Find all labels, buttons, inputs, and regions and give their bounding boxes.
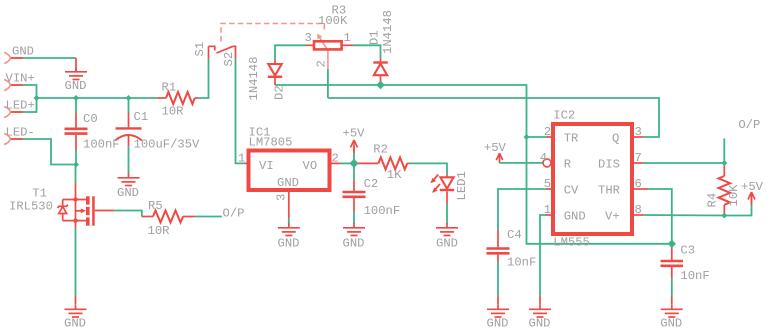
svg-text:Q: Q — [612, 132, 619, 146]
svg-text:T1: T1 — [32, 187, 47, 201]
svg-text:R2: R2 — [373, 143, 388, 157]
svg-text:C1: C1 — [134, 110, 149, 124]
svg-text:V+: V+ — [605, 210, 620, 224]
svg-text:7: 7 — [635, 151, 642, 165]
svg-text:1: 1 — [238, 152, 245, 166]
svg-text:10nF: 10nF — [680, 269, 709, 283]
svg-text:5: 5 — [544, 177, 551, 191]
svg-text:O/P: O/P — [738, 118, 760, 132]
svg-text:LED1: LED1 — [455, 171, 469, 200]
svg-text:R1: R1 — [162, 81, 177, 95]
svg-text:GND: GND — [12, 45, 34, 59]
svg-text:100nF: 100nF — [364, 204, 401, 218]
svg-text:2: 2 — [544, 125, 551, 139]
svg-text:GND: GND — [343, 237, 365, 251]
svg-text:C3: C3 — [680, 243, 695, 257]
svg-text:GND: GND — [277, 176, 299, 190]
svg-text:10R: 10R — [148, 224, 170, 238]
svg-text:IRL530: IRL530 — [9, 200, 53, 214]
svg-text:D2: D2 — [273, 85, 287, 100]
svg-text:LM555: LM555 — [553, 235, 590, 249]
svg-text:THR: THR — [598, 184, 620, 198]
svg-text:GND: GND — [278, 237, 300, 251]
svg-text:GND: GND — [65, 79, 87, 93]
svg-text:2: 2 — [315, 60, 329, 67]
svg-text:R5: R5 — [148, 199, 163, 213]
svg-text:1N4148: 1N4148 — [381, 10, 395, 54]
svg-text:R: R — [564, 158, 571, 172]
svg-text:CV: CV — [564, 184, 579, 198]
svg-text:8: 8 — [635, 203, 642, 217]
svg-text:O/P: O/P — [223, 207, 245, 221]
svg-text:S1: S1 — [193, 42, 207, 57]
svg-text:+5V: +5V — [484, 141, 507, 155]
svg-text:6: 6 — [635, 177, 642, 191]
svg-text:IC2: IC2 — [553, 109, 575, 123]
svg-text:100nF: 100nF — [83, 138, 120, 152]
svg-text:GND: GND — [529, 317, 551, 331]
svg-text:D1: D1 — [368, 30, 382, 45]
svg-text:LED-: LED- — [6, 126, 35, 140]
svg-text:4: 4 — [540, 151, 547, 165]
svg-text:3: 3 — [275, 194, 289, 201]
svg-text:+5V: +5V — [343, 127, 366, 141]
svg-text:LM7805: LM7805 — [249, 136, 293, 150]
svg-text:3: 3 — [635, 125, 642, 139]
svg-text:GND: GND — [660, 317, 682, 331]
svg-text:C4: C4 — [507, 228, 522, 242]
svg-text:TR: TR — [564, 132, 579, 146]
svg-text:1N4148: 1N4148 — [247, 57, 261, 101]
svg-text:GND: GND — [436, 237, 458, 251]
svg-text:GND: GND — [64, 317, 86, 331]
svg-text:3: 3 — [305, 31, 312, 45]
svg-text:2: 2 — [332, 152, 339, 166]
svg-text:VO: VO — [303, 159, 318, 173]
svg-text:100uF/35V: 100uF/35V — [134, 138, 201, 152]
svg-text:VI: VI — [259, 159, 274, 173]
svg-text:1K: 1K — [387, 168, 402, 182]
svg-text:LED+: LED+ — [6, 99, 35, 113]
svg-text:1: 1 — [344, 31, 351, 45]
svg-text:10nF: 10nF — [507, 255, 536, 269]
svg-text:VIN+: VIN+ — [6, 72, 35, 86]
svg-text:+5V: +5V — [741, 180, 764, 194]
svg-text:DIS: DIS — [598, 158, 620, 172]
svg-text:GND: GND — [487, 317, 509, 331]
svg-text:GND: GND — [564, 210, 586, 224]
svg-text:1: 1 — [544, 203, 551, 217]
svg-text:100K: 100K — [318, 14, 348, 28]
svg-text:S2: S2 — [222, 52, 236, 67]
svg-text:R4: R4 — [706, 193, 720, 208]
svg-text:C0: C0 — [83, 112, 98, 126]
svg-text:10R: 10R — [162, 105, 184, 119]
svg-text:GND: GND — [117, 186, 139, 200]
svg-text:10K: 10K — [727, 184, 741, 207]
svg-text:C2: C2 — [364, 177, 379, 191]
